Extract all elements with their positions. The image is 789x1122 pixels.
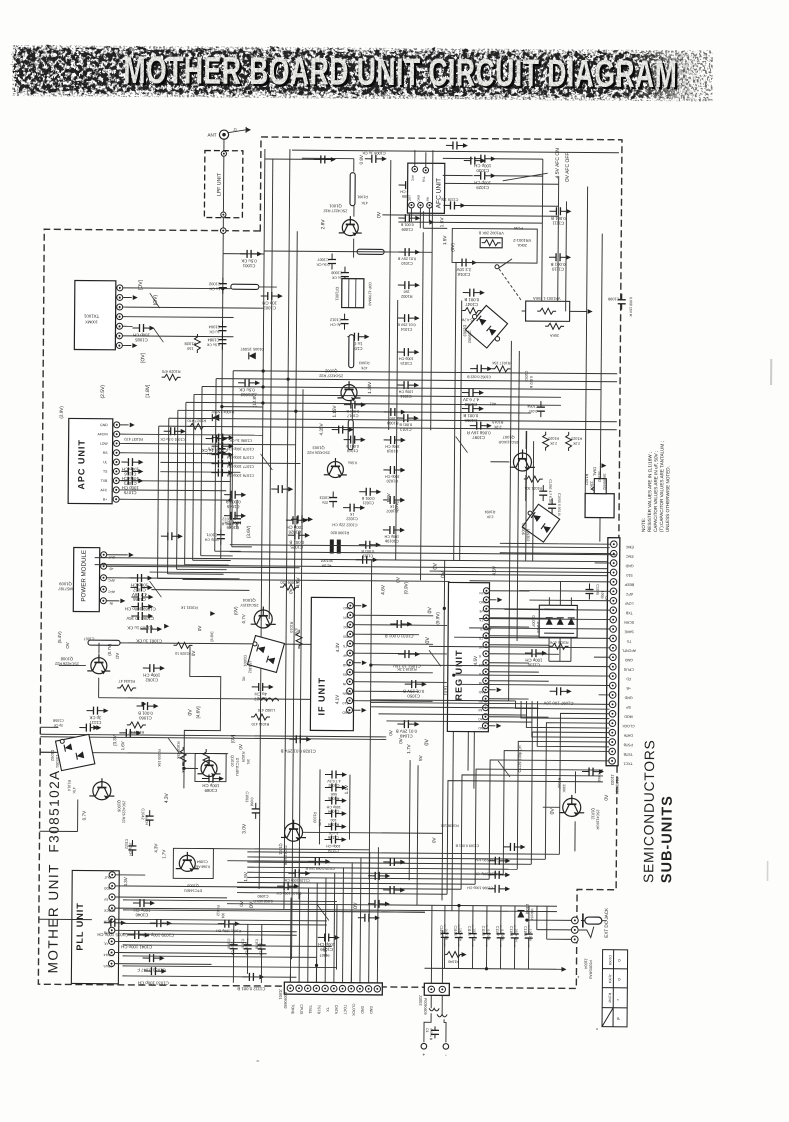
wire y222 h: [398, 222, 542, 223]
capacitor C1034 100p CH: [144, 967, 166, 975]
capacitor C1039 100p CH: [150, 919, 172, 927]
capacitor C1139 speck: [582, 767, 604, 775]
wire inner fan 1: [521, 701, 610, 719]
REG pin S: [483, 651, 489, 657]
svg-text:C1084: C1084: [207, 338, 220, 343]
svg-text:0.001 B: 0.001 B: [463, 413, 478, 418]
title banner photocopied black band: [13, 48, 708, 97]
svg-text:MOTHER BOARD UNIT CIRCUIT DIAG: MOTHER BOARD UNIT CIRCUIT DIAGRAM: [123, 48, 677, 95]
svg-text:0V: 0V: [288, 587, 293, 594]
svg-text:0V: 0V: [376, 211, 382, 218]
svg-text:0.001 B: 0.001 B: [444, 929, 448, 941]
svg-text:CLOCK: CLOCK: [622, 724, 635, 728]
svg-text:100p CH: 100p CH: [384, 534, 399, 538]
arrow cluster gnd: [561, 967, 566, 972]
LPF pin bottom: [221, 212, 226, 217]
svg-text:100 16V: 100 16V: [528, 929, 532, 942]
svg-text:OUT: OUT: [108, 555, 115, 559]
capacitor C1128 10p: [443, 201, 465, 209]
IF pin GND: [347, 660, 353, 666]
wire top right vert x585: [585, 187, 588, 507]
PLL pin UL: [109, 938, 115, 944]
capacitor C1056 4.7 6.3V: [462, 389, 484, 397]
wires J1002 down: [430, 995, 432, 1008]
svg-text:100p CH: 100p CH: [398, 389, 413, 393]
svg-text:C1066: C1066: [132, 597, 145, 602]
resistor R1028 150: [194, 334, 200, 353]
capacitor R1004: [384, 408, 406, 416]
wire vert x430: [431, 150, 433, 430]
wire PLL feed OUT: [115, 874, 145, 876]
APC pin LOW: [114, 440, 120, 446]
capacitor small 0: [314, 155, 336, 163]
capacitor C1111 0.001 B: [549, 207, 571, 215]
capacitor C1097r 0.068 16V R: [470, 422, 492, 430]
svg-text:S10: S10: [342, 701, 348, 705]
svg-text:IN: IN: [109, 601, 113, 605]
svg-text:Q1006: Q1006: [117, 800, 122, 813]
svg-text:4.35V: 4.35V: [319, 422, 324, 435]
svg-text:C1126: C1126: [328, 835, 339, 839]
svg-text:TOCT: TOCT: [343, 1005, 347, 1016]
capacitor C1025 0.001 B: [288, 531, 310, 539]
svg-text:1.1V: 1.1V: [344, 784, 349, 794]
svg-text:C1114 220 10V: C1114 220 10V: [474, 858, 499, 862]
svg-text:R1006 820: R1006 820: [331, 531, 350, 535]
svg-text:C1112 0.001 B: C1112 0.001 B: [237, 986, 265, 991]
wire fan 5 bottom: [247, 877, 489, 879]
note text block: [641, 441, 671, 532]
svg-text:C1040: C1040: [135, 912, 148, 917]
wire bus row 6: [169, 418, 617, 422]
IF pin GND: [347, 603, 353, 609]
svg-text:R1037: R1037: [557, 778, 561, 789]
capacitor C1125 area: [288, 869, 310, 877]
capacitor C1062 100p CH: [143, 664, 165, 672]
svg-text:C1019: C1019: [387, 449, 399, 454]
wire PM +B bus: [107, 566, 300, 568]
J1003 pin PSTB: [609, 739, 616, 746]
PLL unit box: [71, 870, 119, 983]
junctions feed: [369, 664, 372, 667]
wire fan 0 bottom: [247, 852, 559, 854]
svg-text:(3.6V): (3.6V): [246, 525, 251, 538]
wire fan 7 corner: [461, 775, 603, 891]
resistor R1001 vertical: [350, 173, 355, 206]
wire antenna to LPF: [223, 139, 225, 151]
J1001 pin 5 TX: [322, 985, 328, 991]
svg-text:100p CH: 100p CH: [133, 333, 150, 338]
wire APC LOW bus: [120, 443, 296, 444]
wire REG feed 2: [489, 608, 549, 610]
capacitor C1051 10 16V: [398, 650, 420, 658]
wire APC GND arrow: [120, 424, 129, 426]
J1003 pin TSTB: [609, 748, 616, 755]
svg-text:0.5u CK: 0.5u CK: [206, 343, 220, 347]
svg-text:301: 301: [221, 913, 225, 919]
wire J1003 feed BEEP: [470, 581, 611, 582]
capacitor C1055b: [548, 498, 556, 514]
resistor R1023 2.2K: [566, 432, 572, 451]
capacitor C1020: [383, 466, 405, 474]
wire IF feed 9: [353, 690, 419, 693]
wire Q1001 collector up: [353, 206, 355, 217]
svg-text:TXB: TXB: [101, 479, 108, 483]
svg-text:R1011 470: R1011 470: [251, 722, 269, 726]
svg-text:2.2K: 2.2K: [493, 425, 501, 429]
svg-text:A61: A61: [490, 402, 496, 406]
svg-text:1u: 1u: [241, 677, 246, 681]
APC pin AFCIN: [114, 431, 120, 437]
capacitor C1018: [344, 436, 366, 444]
svg-text:LOC: LOC: [343, 625, 350, 629]
svg-text:C1102: C1102: [439, 925, 443, 935]
transistor Q1008 2SD resistor area: [87, 654, 110, 674]
svg-text:3.3 10V: 3.3 10V: [456, 267, 471, 272]
wire IF GND stub 6: [353, 662, 361, 664]
J1003 pin LOW: [610, 597, 617, 604]
J1003 pin +B: [609, 682, 616, 689]
capacitor/resistor C1092: [325, 770, 347, 778]
svg-text:R1007: R1007: [386, 509, 398, 514]
wire AFC pins up: [414, 150, 416, 166]
J1003 pin SAVE: [610, 626, 617, 633]
svg-text:1: 1: [118, 344, 120, 348]
diode pack D1002 1SS301: [56, 734, 95, 770]
svg-text:47K: 47K: [361, 201, 368, 205]
svg-text:0.001 B: 0.001 B: [138, 711, 153, 716]
svg-text:GND: GND: [479, 600, 487, 604]
capacitor C1079: [212, 442, 234, 450]
svg-text:4.3V: 4.3V: [335, 642, 340, 652]
wire bus row 7: [159, 426, 617, 430]
svg-text:B+: B+: [103, 498, 107, 502]
IF pin IN: [347, 679, 353, 685]
svg-text:7: 7: [119, 286, 121, 290]
ceramic filter CF1001 CDP-1270MA0: [342, 279, 364, 308]
wire J1003 feed SP: [371, 702, 610, 704]
wire fan 2 bottom: [247, 862, 531, 864]
wire inner fan 4: [537, 701, 609, 747]
IF pin SCAN: [347, 688, 353, 694]
svg-text:C1033 100p CH: C1033 100p CH: [138, 980, 169, 985]
svg-text:TONE: TONE: [291, 1004, 295, 1015]
APC pin B+: [113, 496, 119, 502]
wire APC AFCIN bus: [120, 434, 263, 435]
wire PM AFC1 bus: [107, 578, 240, 579]
capacitor C1083 0.5u CK: [238, 379, 260, 387]
wire riser x420 low: [417, 765, 418, 905]
capacitor C1040 100p CH: [133, 899, 155, 907]
svg-text:(0.7V): (0.7V): [107, 643, 112, 656]
wire PM OUT: [107, 554, 128, 556]
wire J1003 feed S10: [480, 571, 611, 572]
svg-text:SUB-UNITS: SUB-UNITS: [659, 795, 676, 883]
wire bus x295: [292, 231, 298, 959]
svg-text:0V: 0V: [238, 743, 243, 750]
capacitor C1066 4.7 16V: [130, 583, 152, 591]
wire fan 3 bottom: [247, 867, 517, 869]
svg-text:RESISTER VALUES ARE IN Ω,1: RESISTER VALUES ARE IN Ω,1/16W ;: [647, 452, 653, 532]
APC pin AFC: [113, 487, 119, 493]
svg-text:D1001: D1001: [243, 655, 248, 667]
capacitor C1042 6u CH: [146, 810, 154, 826]
J1001 pin 2 CPUS: [296, 985, 302, 991]
diode pack D1003 1S9302: [465, 305, 507, 348]
svg-text:2: 2: [119, 334, 121, 338]
capacitor C1035 100p CH: [104, 919, 126, 927]
diode D1008 1SR154: [517, 910, 524, 917]
transistor Q1002: [337, 381, 360, 401]
wire long y553: [230, 552, 616, 555]
svg-text:D1002: D1002: [50, 750, 55, 762]
wire dial up: [599, 457, 601, 479]
wire pll area v1: [232, 954, 234, 983]
AFC pin AFC: [412, 166, 418, 172]
svg-text:SP: SP: [626, 705, 631, 709]
svg-text:100p: 100p: [600, 591, 604, 599]
svg-text:Q1010: Q1010: [230, 755, 234, 766]
capacitor C1122b 100p CH: [277, 882, 299, 890]
svg-text:C1097: C1097: [472, 435, 485, 440]
svg-text:1S9302: 1S9302: [467, 330, 471, 343]
wire r1002 to bus: [384, 251, 432, 253]
scan speck bottom: [256, 1060, 259, 1062]
wire vert x518: [517, 351, 519, 641]
switch arm dashed: [499, 269, 522, 301]
svg-text:330K: 330K: [562, 784, 566, 793]
transistor Q1006: [89, 778, 114, 800]
J1003 pin GND: [610, 560, 617, 567]
svg-text:C1095: C1095: [595, 584, 599, 595]
diode D1005 1SS97: [249, 352, 256, 359]
svg-text:4.1V: 4.1V: [335, 694, 340, 704]
wire fan 7 bottom: [237, 887, 461, 889]
svg-text:C1042: C1042: [141, 808, 145, 819]
svg-text:R1022: R1022: [584, 474, 589, 486]
svg-text:[4.8V]: [4.8V]: [210, 632, 214, 642]
resistor R1011 470: [251, 714, 270, 720]
REG pin CPUS: [483, 660, 489, 666]
capacitor C1084 0.5u CK: [218, 334, 226, 350]
svg-text:0V: 0V: [604, 794, 610, 801]
IF pin GND: [346, 707, 352, 713]
wire PLL feed PTN14: [115, 953, 267, 954]
svg-text:5: 5: [119, 306, 121, 310]
svg-text:0.068: 0.068: [597, 773, 601, 782]
svg-text:1NR10: 1NR10: [536, 621, 540, 633]
svg-text:3p CK: 3p CK: [89, 715, 101, 720]
svg-text:2.2K: 2.2K: [486, 515, 494, 519]
capacitor C1054 0.047: [537, 401, 545, 417]
wire J1003 feed AFC: [519, 590, 610, 593]
svg-text:AFC: AFC: [411, 175, 415, 182]
wire cluster tops: [444, 905, 446, 926]
svg-text:3.0V: 3.0V: [242, 823, 248, 834]
svg-text:R1017 15K: R1017 15K: [491, 361, 510, 365]
svg-text:R1030 15K: R1030 15K: [157, 749, 161, 767]
svg-text:S10: S10: [626, 573, 632, 577]
J1002 pin 1: [428, 986, 434, 992]
J1003 pin GND: [609, 692, 616, 699]
capacitor small 12: [358, 914, 380, 922]
svg-text:OV AFC OFF: OV AFC OFF: [565, 152, 571, 182]
TX1001 pin 2: [116, 333, 122, 339]
svg-text:0.001 B: 0.001 B: [361, 496, 374, 500]
capacitor small 5: [161, 532, 183, 540]
capacitor C1036 100p CH: [230, 939, 238, 955]
wire d1007 drops: [548, 637, 550, 661]
svg-text:C1038: C1038: [255, 939, 259, 949]
svg-text:P030GRA3: P030GRA3: [588, 960, 592, 979]
svg-text:(OV): (OV): [153, 294, 159, 305]
transistor Q1005 DTC144EU: [176, 852, 199, 872]
transistor Q1004: [251, 606, 276, 628]
svg-text:C1071: C1071: [206, 533, 217, 537]
svg-text:2SC4315Y: 2SC4315Y: [240, 603, 259, 607]
svg-text:LPF UNIT: LPF UNIT: [217, 172, 223, 196]
svg-text:[OV]: [OV]: [140, 352, 146, 363]
svg-text:CPUS: CPUS: [479, 663, 488, 667]
svg-text:R1004: R1004: [386, 421, 398, 426]
power module pin IN: [100, 598, 106, 604]
wire bus y739: [40, 737, 386, 740]
svg-text:VR: VR: [343, 615, 348, 619]
resistor R1030 15K: [180, 747, 186, 766]
EXT DC jack lever: [579, 926, 594, 937]
wire Q1008 base wires: [59, 664, 86, 666]
svg-text:AF: AF: [343, 654, 347, 658]
svg-text:C1089: C1089: [204, 788, 217, 793]
wire apc down a: [221, 429, 222, 559]
wire inner fan 3: [532, 701, 610, 737]
wire REG feed 4: [489, 626, 529, 628]
svg-text:R1033: R1033: [313, 812, 317, 823]
svg-text:AFC: AFC: [100, 488, 107, 492]
antenna ANT jack J?: [219, 130, 228, 139]
svg-text:AF-IN: AF-IN: [479, 591, 488, 595]
svg-text:D1008: D1008: [608, 955, 612, 965]
svg-text:1S9302: 1S9302: [526, 529, 530, 542]
PLL pin CLOCK: [109, 905, 115, 911]
svg-text:Q1008: Q1008: [60, 656, 73, 661]
capacitor small 4: [271, 485, 293, 493]
wire PLL feed PSTB: [115, 930, 297, 931]
svg-text:1.5V: 1.5V: [442, 235, 447, 245]
svg-text:[3.3V]: [3.3V]: [112, 734, 117, 746]
wire q1007 coll: [525, 431, 527, 449]
capacitor C1018 3.3 10V: [455, 258, 477, 266]
svg-text:100p CH: 100p CH: [458, 928, 462, 942]
svg-text:UL: UL: [103, 460, 107, 464]
svg-text:C1018: C1018: [457, 272, 470, 277]
diode pack D1006 1S9302: [522, 504, 559, 542]
wire Q1002 emitter: [351, 404, 353, 420]
wires J1002 vertical feeds: [430, 905, 433, 983]
wire rf top inner: [302, 157, 354, 159]
capacitor small 14: [488, 871, 510, 879]
svg-text:[4.6V]: [4.6V]: [195, 706, 200, 718]
J1003 pin S10: [610, 569, 617, 576]
svg-text:R1029: R1029: [241, 752, 245, 763]
svg-text:C1094: C1094: [328, 809, 339, 813]
svg-text:C1049: C1049: [399, 733, 412, 738]
svg-text:C1092: C1092: [328, 783, 339, 787]
wire J1003 feed GND: [599, 694, 610, 696]
speaker terminal -: [443, 1044, 449, 1050]
wire q1010 junction: [184, 767, 198, 769]
LPF pin top: [221, 151, 226, 156]
svg-text:R1026 10: R1026 10: [175, 651, 191, 655]
svg-text:C1129 100p CH: C1129 100p CH: [518, 745, 522, 772]
svg-text:100p CH: 100p CH: [474, 163, 491, 168]
capacitor C1110 0.001 B: [549, 253, 571, 261]
capacitor C1060 0.001 B: [136, 702, 158, 710]
svg-text:1u CK: 1u CK: [331, 276, 342, 280]
svg-text:DATA: DATA: [334, 1005, 338, 1015]
svg-text:C1122: C1122: [124, 839, 128, 849]
svg-text:C1003: C1003: [263, 305, 276, 310]
svg-text:0.5u CK: 0.5u CK: [241, 258, 257, 263]
svg-text:1SR154: 1SR154: [530, 908, 534, 920]
svg-text:MOD: MOD: [103, 886, 111, 890]
svg-text:R1018 2.2K: R1018 2.2K: [397, 667, 417, 671]
svg-text:CPUS: CPUS: [623, 667, 634, 671]
capacitor C1061 1u CK: [140, 625, 162, 633]
resistor R1027 470 with cap C1081: [187, 423, 206, 429]
capacitor C1055 0.001 B: [462, 405, 484, 413]
capacitor C1119: [359, 541, 381, 549]
svg-text:R1040: R1040: [608, 993, 612, 1003]
svg-text:J1003: J1003: [610, 774, 615, 786]
svg-text:0.01 25V B: 0.01 25V B: [396, 729, 417, 734]
capacitor C1080 1u CK: [206, 435, 228, 443]
J1003 pin SP: [609, 701, 616, 708]
option table R1040/J1004/D1008: [602, 950, 628, 1027]
wire J1003 feed ENC: [500, 552, 611, 555]
svg-text:SEMICONDUCTORS: SEMICONDUCTORS: [641, 739, 657, 883]
svg-text:0.5u CK: 0.5u CK: [316, 262, 330, 266]
svg-text:0V: 0V: [388, 729, 393, 736]
wire REG feed 7: [489, 653, 559, 656]
J1003 pin BEEP: [610, 579, 617, 586]
wire TX1001 pin4 bus: [123, 316, 234, 319]
svg-text:0.001 B: 0.001 B: [346, 444, 359, 448]
svg-text:C1057: C1057: [84, 637, 95, 641]
capacitor C1067 100p CH: [131, 574, 153, 582]
svg-text:R1037 470: R1037 470: [124, 437, 143, 441]
wire bus drop 3: [193, 394, 194, 560]
wire long y707: [371, 707, 521, 708]
wire long y721: [386, 721, 532, 722]
wire fan 6 bottom: [237, 882, 475, 884]
wire TX1001 pin1 arrow: [122, 344, 131, 346]
capacitor C1077: [211, 460, 233, 468]
capacitor small 16: [503, 843, 525, 851]
svg-text:AFCNTL: AFCNTL: [622, 648, 636, 652]
svg-text:M57787: M57787: [57, 586, 72, 591]
wire PLL feed 5V: [115, 896, 227, 899]
svg-text:R1001: R1001: [357, 195, 368, 199]
svg-text:TX: TX: [626, 639, 631, 643]
wire REG feed 0: [489, 590, 529, 592]
wire J1001 riser stub: [289, 974, 291, 982]
J1001 pin 8 CLOCK: [348, 985, 354, 991]
wire riser x412 low: [408, 760, 411, 880]
svg-text:P0090682: P0090682: [283, 992, 287, 1009]
wire IF feed 4: [353, 643, 433, 646]
svg-text:J1001: J1001: [278, 989, 283, 1000]
